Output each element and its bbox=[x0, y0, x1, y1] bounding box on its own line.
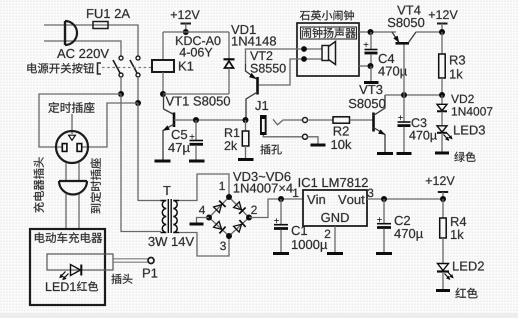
diode VD4 upper-right bbox=[234, 202, 246, 214]
label VD2 bbox=[451, 95, 474, 103]
label pin2 IC bbox=[325, 230, 331, 238]
node VT4 collector bbox=[439, 29, 445, 35]
contact spring bbox=[273, 119, 302, 125]
label 1N4007x4 bbox=[234, 183, 293, 192]
node pole1 bbox=[118, 91, 124, 97]
wire plug pin right bbox=[78, 163, 80, 229]
ground IC bbox=[327, 252, 343, 255]
resistor R2 bbox=[333, 117, 373, 123]
wire clock out top bbox=[359, 31, 396, 33]
label green bbox=[454, 152, 475, 162]
label C1 value bbox=[292, 240, 327, 252]
charger plug P2 bbox=[59, 181, 87, 195]
ground jack bbox=[311, 144, 326, 147]
label pin1 IC bbox=[293, 189, 298, 197]
label charger plug rotated bbox=[34, 157, 44, 212]
label pin 1 bbox=[220, 182, 225, 190]
wire IC GND bbox=[334, 226, 336, 252]
wire secondary bottom to bridge bbox=[179, 233, 229, 257]
wire pole1 down bbox=[120, 77, 122, 94]
ground R1 bbox=[238, 158, 254, 161]
label timer socket bbox=[48, 102, 94, 113]
label to timer socket rotated bbox=[90, 158, 101, 213]
fuse FU1 bbox=[93, 22, 108, 29]
wire secondary top to bridge bbox=[179, 174, 229, 201]
wire relay loop bottom bbox=[163, 93, 229, 95]
label pin 4 bbox=[199, 206, 205, 214]
cable rect bbox=[47, 254, 113, 270]
label IC1 LM7812 bbox=[299, 178, 368, 187]
label P1 bbox=[143, 269, 157, 278]
label VT4 S8050 bbox=[388, 18, 425, 27]
dashed linkage line bbox=[102, 67, 151, 69]
ground bridge bbox=[190, 223, 204, 226]
LED LED1 bbox=[59, 265, 81, 281]
switch S1 pole 1 bbox=[113, 56, 123, 77]
label jack hole bbox=[260, 144, 281, 154]
label power switch button bbox=[27, 63, 94, 74]
contact circle top bbox=[303, 118, 308, 123]
power +12V terminal K1 bbox=[171, 10, 200, 32]
diode VD2 bbox=[437, 95, 447, 126]
label VD1 bbox=[231, 25, 256, 34]
ground C4 bbox=[364, 81, 379, 84]
wire contact to R2 bbox=[308, 119, 334, 121]
wire pole1 to transformer bbox=[121, 94, 161, 232]
wire pole2 to transformer bbox=[138, 103, 161, 201]
diode VD6 lower-right bbox=[234, 220, 246, 232]
label EV charger bbox=[35, 232, 102, 243]
label LED3 bbox=[454, 125, 485, 134]
LED LED2 bbox=[437, 264, 454, 290]
label C5 value bbox=[168, 143, 189, 155]
node +12V relay bbox=[183, 29, 189, 35]
wire speaker top to VT2 emitter bbox=[246, 49, 302, 64]
node R3 bottom bbox=[439, 92, 445, 98]
node bridge 2 bbox=[246, 215, 252, 221]
wire bridge 4 to ground bbox=[197, 218, 210, 223]
label C4 bbox=[379, 54, 395, 63]
label red bbox=[455, 288, 477, 298]
plug P1 circle bbox=[148, 258, 154, 264]
label VT3 S8050 bbox=[349, 99, 386, 108]
label VT1 S8050 bbox=[166, 96, 230, 105]
resistor R4 bbox=[440, 199, 447, 263]
node C1 top bbox=[278, 196, 284, 202]
transformer T primary bbox=[161, 201, 167, 233]
node relay bottom bbox=[160, 91, 166, 97]
node speaker bottom bbox=[301, 56, 307, 62]
label FU1 2A bbox=[87, 9, 130, 18]
transformer core bbox=[168, 199, 171, 233]
AC plug P bbox=[65, 21, 77, 45]
wire jack lower contact bbox=[263, 135, 302, 137]
wire VT3 collector rail bbox=[385, 94, 442, 96]
wire plug pin left bbox=[65, 163, 67, 229]
label VD3~VD6 bbox=[233, 172, 291, 181]
transistor VT4 bbox=[392, 32, 416, 43]
wire L1 top mains bbox=[44, 25, 138, 56]
resistor R1 bbox=[242, 120, 249, 158]
node R4 top bbox=[440, 196, 446, 202]
ground LED2 bbox=[436, 289, 450, 292]
wire pole2 to socket bbox=[82, 103, 138, 147]
node speaker top bbox=[301, 46, 307, 52]
label quartz alarm clock bbox=[300, 10, 354, 20]
label pin3 IC bbox=[368, 189, 374, 198]
transformer T secondary bbox=[173, 201, 179, 233]
label R3 value bbox=[450, 69, 463, 78]
label C4 value bbox=[378, 66, 407, 78]
label C3 bbox=[412, 118, 427, 127]
label C5 bbox=[172, 130, 187, 139]
socket SK1 bbox=[56, 131, 88, 163]
label box alarm speaker bbox=[301, 27, 357, 39]
diode VD1 bbox=[224, 59, 235, 94]
wire bridge 2 to Vin bbox=[249, 199, 303, 218]
label KDC-A0 bbox=[176, 36, 220, 45]
diode VD3 upper-left bbox=[214, 201, 226, 213]
node VT4 base bbox=[401, 92, 407, 98]
label VT2 bbox=[250, 51, 272, 60]
node bridge 3 bbox=[226, 233, 232, 239]
node C4 top bbox=[368, 29, 374, 35]
label VT3 bbox=[359, 85, 382, 94]
label C2 value bbox=[394, 229, 423, 241]
capacitor C1 bbox=[274, 199, 288, 252]
label LED2 bbox=[453, 261, 484, 270]
node bridge 1 bbox=[226, 194, 232, 200]
bridge frame bbox=[209, 197, 249, 236]
node bridge 4 bbox=[206, 215, 212, 221]
box EV charger bbox=[30, 229, 105, 305]
label C1 bbox=[292, 226, 307, 235]
wire VT4 base down bbox=[403, 44, 405, 95]
wire Vout rail bbox=[367, 198, 443, 200]
wire speaker bottom to VT2 base bbox=[259, 59, 301, 85]
diode VD5 lower-left bbox=[214, 221, 226, 233]
wire relay loop top bbox=[163, 31, 229, 33]
label 1N4148 bbox=[232, 36, 276, 45]
bracket linkage bbox=[98, 63, 102, 74]
ground C1 bbox=[273, 252, 289, 255]
node R1 top bbox=[243, 117, 249, 123]
ground LED3 bbox=[435, 152, 449, 155]
label R1 bbox=[225, 128, 239, 137]
ground C5 bbox=[189, 160, 205, 163]
label T bbox=[163, 186, 170, 195]
wire pole1 to socket bbox=[39, 94, 121, 147]
label VD2 value bbox=[452, 107, 493, 116]
box quartz clock bbox=[297, 23, 359, 76]
label LED1 red bbox=[46, 282, 76, 291]
label 3W 14V bbox=[148, 237, 194, 246]
label R1 value bbox=[225, 141, 238, 150]
label C3 value bbox=[409, 131, 437, 142]
label S8550 bbox=[251, 64, 286, 73]
capacitor C2 bbox=[377, 199, 391, 252]
wire L2 bottom mains bbox=[44, 41, 121, 56]
label R2 bbox=[334, 126, 349, 135]
switch S1 pole 2 bbox=[130, 56, 140, 77]
jack J1 bbox=[260, 115, 267, 135]
label R3 bbox=[450, 55, 465, 64]
node pole2 bbox=[135, 100, 141, 106]
capacitor C3 bbox=[398, 95, 411, 152]
wire VT4 collector to +12V bbox=[416, 31, 442, 33]
label J1 bbox=[255, 101, 268, 110]
capacitor C4 bbox=[364, 32, 378, 66]
node C4 bottom bbox=[368, 63, 374, 69]
wire clock out bottom bbox=[359, 65, 371, 67]
pointer line to socket bbox=[71, 114, 73, 134]
label 4-06Y bbox=[180, 48, 213, 57]
node C5 top bbox=[193, 117, 199, 123]
speaker SP bbox=[306, 42, 336, 65]
wire contact to ground bbox=[308, 137, 319, 144]
label R4 bbox=[451, 217, 466, 226]
label AC 220V bbox=[57, 49, 109, 58]
label VT4 bbox=[397, 6, 420, 15]
capacitor C5 bbox=[190, 120, 204, 160]
ground VT1 emitter bbox=[155, 160, 171, 163]
power +12V terminal right bbox=[429, 10, 458, 32]
label R4 value bbox=[451, 230, 464, 239]
contact circle bottom bbox=[303, 134, 308, 139]
power +12V terminal bottom bbox=[426, 176, 455, 199]
resistor R3 bbox=[439, 32, 446, 95]
LED LED3 bbox=[437, 126, 453, 152]
node C2 top bbox=[381, 196, 387, 202]
cable to plug bbox=[113, 259, 148, 262]
IC U1 LM7812 bbox=[303, 190, 367, 226]
relay K1 bbox=[152, 60, 193, 72]
transistor VT3 bbox=[374, 95, 386, 152]
wire relay coil top bbox=[162, 32, 164, 60]
label plug bbox=[111, 274, 132, 284]
wire VD1 cathode bbox=[228, 32, 230, 59]
wire relay coil bottom bbox=[162, 72, 164, 94]
wire VT1 base bbox=[174, 119, 246, 121]
ground C2 bbox=[376, 252, 392, 255]
transistor VT1 bbox=[163, 94, 174, 160]
label C2 bbox=[395, 216, 410, 225]
ground C3 bbox=[397, 152, 412, 155]
ground VT3 bbox=[377, 152, 393, 155]
wire C4 to ground bbox=[370, 66, 372, 81]
label pin 2 bbox=[251, 206, 256, 214]
wire pole2 down bbox=[137, 77, 139, 103]
label pin 3 bbox=[220, 242, 226, 251]
transistor VT2 bbox=[246, 64, 258, 120]
label R2 value bbox=[332, 140, 352, 150]
